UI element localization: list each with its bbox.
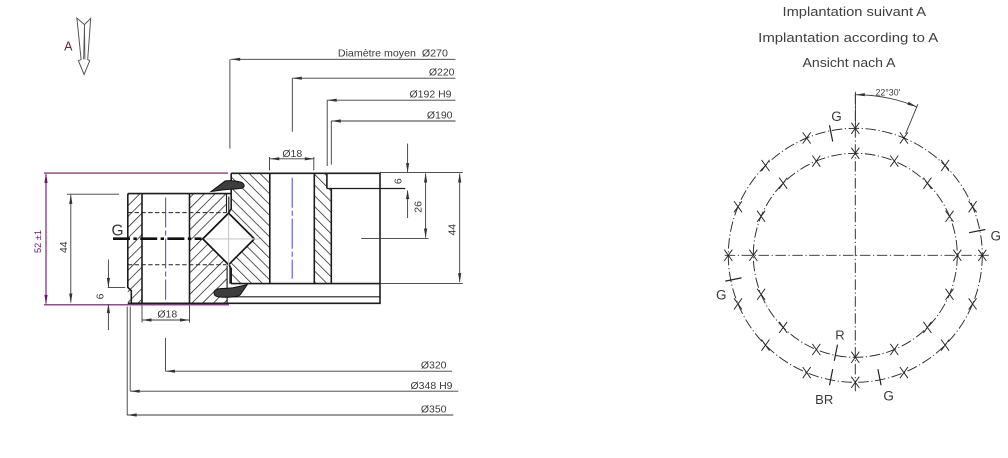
hidden dashed line upper xyxy=(128,212,227,214)
svg-text:G: G xyxy=(716,288,727,303)
svg-text:Diamètre moyen Ø270: Diamètre moyen Ø270 xyxy=(338,48,448,60)
svg-text:G: G xyxy=(883,389,894,404)
dimension 6 lower left xyxy=(108,287,126,289)
hatching outer ring right band lower xyxy=(314,189,331,284)
horizontal centerline xyxy=(725,254,990,256)
inner ring hole centerline blue xyxy=(165,198,167,300)
bolt circle inner dash-dot xyxy=(753,153,957,357)
svg-text:44: 44 xyxy=(446,224,458,236)
hidden dashed line lower xyxy=(128,264,227,266)
outer ring bore edge 190 xyxy=(330,189,332,284)
dimension 44 left xyxy=(67,193,119,195)
svg-text:52 ±1: 52 ±1 xyxy=(33,230,43,253)
svg-text:Ø18: Ø18 xyxy=(157,308,177,320)
outer ring step line 6mm xyxy=(327,188,405,190)
dimension diam 350 xyxy=(126,307,128,416)
dimension diam 190 xyxy=(330,121,332,165)
svg-text:Ø348 H9: Ø348 H9 xyxy=(410,380,452,392)
seal top xyxy=(211,181,244,192)
svg-text:G: G xyxy=(831,109,842,124)
seal bottom xyxy=(214,285,247,297)
dimension diam 18 lower xyxy=(141,306,143,323)
tick R inner circle xyxy=(834,345,837,361)
vertical centerline xyxy=(854,94,856,394)
dimension 6 upper right xyxy=(407,144,409,173)
grease nipple tick G right xyxy=(969,230,985,233)
hatching inner ring right band xyxy=(190,194,227,304)
svg-text:Ø350: Ø350 xyxy=(421,403,447,415)
svg-text:Ø220: Ø220 xyxy=(429,66,455,78)
dimension diam 320 xyxy=(165,338,167,371)
outer ring hole centerline blue xyxy=(291,178,293,279)
svg-text:G: G xyxy=(991,228,1002,243)
dimension diam 348 H9 xyxy=(129,307,131,392)
svg-text:Ø18: Ø18 xyxy=(282,148,302,160)
axis G line xyxy=(113,237,202,240)
svg-text:26: 26 xyxy=(412,201,424,213)
svg-text:A: A xyxy=(64,40,73,54)
outer ring outline xyxy=(229,173,380,303)
dimension diam 192 H9 xyxy=(326,100,328,166)
svg-text:6: 6 xyxy=(393,178,405,184)
inner ring bolt hole walls xyxy=(141,194,143,304)
angle dimension 22deg30 xyxy=(855,92,857,128)
bolt circle outer dash-dot xyxy=(728,128,982,382)
hatching inner ring left band xyxy=(128,194,142,304)
svg-text:R: R xyxy=(835,328,844,343)
svg-text:G: G xyxy=(111,223,123,240)
grease nipple tick G bottom xyxy=(878,369,881,385)
common bottom edge xyxy=(128,302,381,304)
svg-text:22°30': 22°30' xyxy=(876,88,901,98)
svg-text:Ansicht nach A: Ansicht nach A xyxy=(803,55,896,70)
bolt position marks inner circle xyxy=(749,148,961,363)
roller centerlines gray xyxy=(206,214,260,266)
dimension diam 220 xyxy=(291,78,293,132)
hatching outer ring right band upper xyxy=(314,173,327,188)
svg-text:Implantation according to A: Implantation according to A xyxy=(758,30,938,45)
svg-text:Ø190: Ø190 xyxy=(427,109,453,121)
svg-text:Ø320: Ø320 xyxy=(421,359,447,371)
grease nipple tick G left xyxy=(725,278,741,281)
outer ring hatched bottom edge xyxy=(231,283,380,285)
dimension 44 right xyxy=(380,171,463,173)
svg-text:6: 6 xyxy=(95,293,107,299)
svg-text:Ø192 H9: Ø192 H9 xyxy=(409,89,451,101)
grease nipple tick G top xyxy=(830,125,833,141)
hatching outer ring left band xyxy=(231,173,270,283)
roller diamond xyxy=(203,213,255,265)
inner ring raceway gap walls xyxy=(227,194,230,304)
bolt position marks outer circle xyxy=(724,123,986,388)
dimension diametre moyen 270 xyxy=(229,59,231,148)
inner ring outline xyxy=(128,194,231,304)
outer ring bolt hole walls xyxy=(269,173,271,283)
outer ring bore edge 192H9 xyxy=(326,173,328,188)
view arrow A xyxy=(77,18,91,75)
svg-text:Implantation suivant A: Implantation suivant A xyxy=(783,4,927,19)
dimension diam 18 upper xyxy=(269,157,271,171)
svg-text:44: 44 xyxy=(58,241,70,253)
tick BR outer circle xyxy=(830,369,833,385)
dimension 52 +-1 purple xyxy=(44,172,228,174)
dimension 26 right xyxy=(425,173,427,237)
svg-text:BR: BR xyxy=(815,392,833,407)
flange mid line xyxy=(218,296,380,298)
